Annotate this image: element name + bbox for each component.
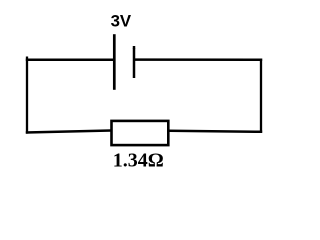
resistor R1 body (rectangle) (112, 121, 169, 145)
battery B1 left plate (long, positive) (113, 34, 116, 90)
wire: left vertical side of loop (26, 57, 28, 134)
svg-text:3V: 3V (111, 12, 132, 31)
battery B1 right plate (short, negative) (133, 46, 136, 78)
battery B1 right plate top tick (133, 46, 136, 49)
wire: bottom-right horizontal from resistor to loop corner (169, 131, 262, 132)
wire: bottom-left horizontal from loop corner to resistor (26, 131, 111, 133)
svg-text:1.34Ω: 1.34Ω (113, 150, 164, 172)
wire: top-left horizontal from loop corner to battery left plate (26, 59, 114, 62)
wire: right vertical side of loop (260, 59, 262, 133)
wire: top-right horizontal from battery right plate to loop corner (134, 58, 262, 61)
